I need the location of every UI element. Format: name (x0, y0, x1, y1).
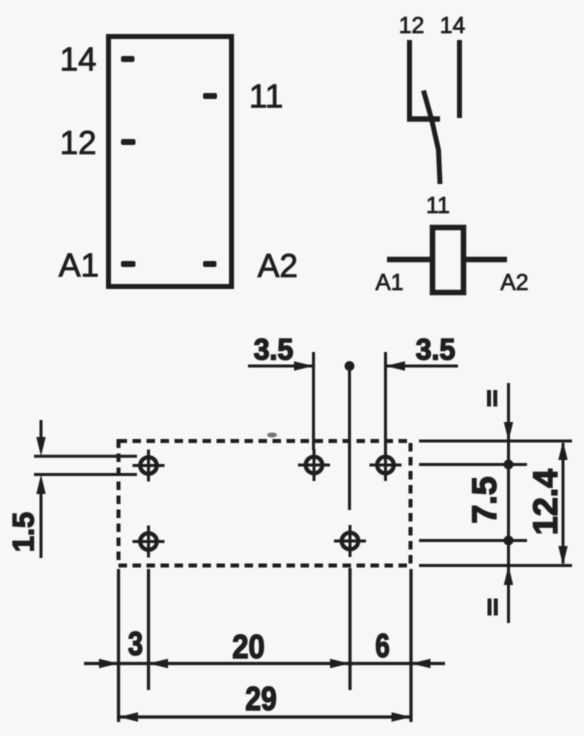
svg-text:12.4: 12.4 (527, 469, 565, 535)
svg-text:14: 14 (440, 12, 466, 38)
svg-text:14: 14 (60, 41, 97, 78)
svg-text:A1: A1 (59, 247, 99, 284)
svg-text:3.5: 3.5 (254, 334, 294, 367)
svg-text:A1: A1 (375, 269, 403, 295)
svg-text:A2: A2 (258, 247, 298, 284)
svg-text:3: 3 (128, 626, 143, 663)
svg-text:29: 29 (245, 681, 277, 718)
svg-text:12: 12 (60, 124, 97, 161)
svg-text:11: 11 (426, 192, 450, 218)
svg-text:11: 11 (249, 78, 283, 115)
svg-text:3.5: 3.5 (416, 334, 456, 367)
svg-text:7.5: 7.5 (466, 476, 504, 523)
svg-text:A2: A2 (500, 269, 528, 295)
svg-text:1.5: 1.5 (8, 512, 41, 552)
svg-text:12: 12 (399, 12, 425, 38)
svg-text:20: 20 (232, 629, 265, 666)
svg-text:6: 6 (375, 628, 390, 665)
